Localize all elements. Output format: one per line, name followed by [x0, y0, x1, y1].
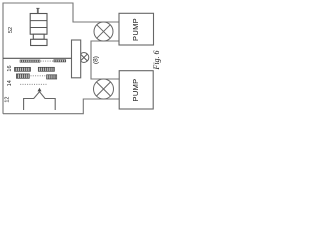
funnel source: [24, 92, 56, 110]
svg-text:PUMP: PUMP: [131, 18, 140, 41]
pump box 2: [119, 71, 153, 109]
svg-text:16: 16: [7, 65, 13, 71]
stack box C: [31, 39, 47, 45]
stack pin: [37, 8, 39, 13]
valve V2 (circle with X): [94, 79, 114, 99]
bar A1: [20, 60, 40, 62]
valve V1 (circle with X): [94, 22, 113, 41]
svg-text:14: 14: [7, 80, 13, 86]
pump box 1: [119, 13, 154, 45]
bar B2: [38, 67, 54, 71]
bar A2: [15, 67, 31, 71]
dots row3: [31, 75, 47, 77]
svg-text:(8): (8): [92, 56, 99, 64]
dots row4: [20, 83, 47, 85]
wire: lower duct bottom edge, bottom step, chamber floor: [3, 99, 119, 114]
column (gate) rectangle: [72, 40, 81, 78]
bar B3: [47, 75, 57, 79]
shelf line to column: [3, 57, 72, 59]
svg-text:52: 52: [8, 27, 14, 33]
svg-text:12: 12: [5, 97, 11, 103]
bar B1: [54, 60, 66, 62]
bar A3: [16, 74, 29, 78]
valve V3 small (circle with X): [79, 53, 89, 63]
svg-text:Fig. 6: Fig. 6: [152, 50, 161, 70]
stack box A: [30, 14, 47, 35]
dots row1: [41, 60, 55, 62]
svg-text:PUMP: PUMP: [131, 79, 140, 102]
arrow at funnel apex: [38, 88, 42, 92]
chamber wall: left, top, right step, upper pump duct top edge: [3, 3, 119, 114]
stack box B: [33, 34, 44, 39]
wire: upper duct bottom edge, mid right wall, lower duct top edge: [91, 41, 119, 79]
